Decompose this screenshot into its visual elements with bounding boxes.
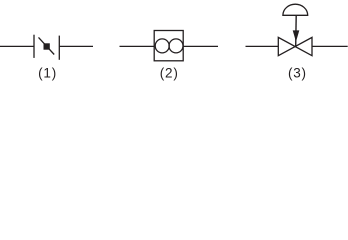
meter (2) body box bbox=[154, 31, 183, 61]
wire left of meter (2) bbox=[120, 45, 155, 47]
control valve (3) stem bbox=[295, 15, 298, 46]
valve (1) butterfly disc diagonal bbox=[39, 37, 55, 54]
control valve (3) stem arrowhead bbox=[293, 30, 300, 41]
meter (2) right oval gear circle bbox=[169, 39, 183, 53]
valve (1) right flange bar bbox=[58, 36, 60, 60]
wire right of valve (1) bbox=[59, 45, 93, 47]
wire left of control valve (3) bbox=[246, 45, 279, 47]
control valve (3) body bowtie bbox=[278, 37, 312, 55]
valve (1) left flange bar bbox=[33, 35, 35, 58]
svg-text:(3): (3) bbox=[288, 65, 307, 80]
control valve (3) actuator dome bbox=[283, 4, 308, 15]
svg-text:(1): (1) bbox=[38, 65, 57, 80]
wire left of valve (1) bbox=[0, 45, 34, 47]
valve (1) butterfly disc square bbox=[44, 43, 50, 49]
wire right of meter (2) bbox=[183, 45, 218, 47]
wire right of control valve (3) bbox=[312, 45, 348, 47]
meter (2) left oval gear circle bbox=[155, 39, 169, 53]
svg-text:(2): (2) bbox=[160, 65, 179, 80]
